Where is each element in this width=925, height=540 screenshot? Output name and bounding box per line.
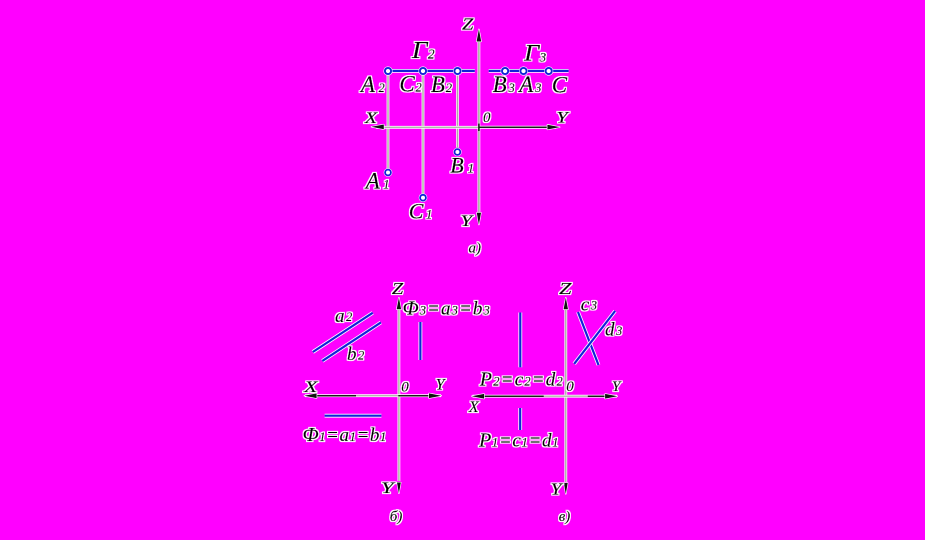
- svg-text:a2: a2: [335, 306, 352, 327]
- svg-text:Γ3: Γ3: [523, 41, 547, 66]
- svg-text:Y: Y: [556, 110, 570, 127]
- wire: connector B2-B1: [456, 75, 459, 148]
- svg-text:B3: B3: [493, 72, 515, 97]
- line d3 (blue): [574, 311, 615, 364]
- line a2 (blue): [313, 313, 373, 352]
- svg-text:c3: c3: [581, 294, 597, 315]
- svg-text:b2: b2: [347, 344, 364, 365]
- svg-text:Y: Y: [436, 377, 447, 394]
- figure b : bottom-left diagram: [303, 279, 491, 525]
- svg-text:d3: d3: [605, 320, 622, 341]
- figure a : top projection diagram: [359, 14, 571, 256]
- line b2 (blue): [322, 322, 381, 361]
- svg-text:0: 0: [401, 379, 409, 395]
- node C2: [418, 66, 427, 75]
- svg-text:Ф3=a3=b3: Ф3=a3=b3: [403, 298, 491, 320]
- svg-text:б): б): [390, 509, 403, 525]
- node C1: [419, 193, 428, 202]
- axis X-Y horizontal: [376, 126, 479, 129]
- horizontal trace F1 segment (blue): [325, 414, 382, 418]
- svg-text:A3: A3: [517, 72, 541, 97]
- node A2: [383, 66, 392, 75]
- axis Z-Y1 vertical: [397, 302, 400, 481]
- svg-text:в): в): [559, 509, 571, 525]
- plane trace G2 (blue): [385, 69, 475, 73]
- svg-text:Y: Y: [381, 480, 396, 497]
- svg-text:0: 0: [483, 110, 491, 126]
- svg-text:C: C: [552, 73, 568, 98]
- frontal trace P2 segment (blue): [518, 313, 522, 368]
- svg-text:а): а): [469, 240, 482, 256]
- node B1: [453, 148, 462, 157]
- node A1: [384, 168, 393, 177]
- svg-text:X: X: [303, 379, 320, 396]
- node B2: [453, 66, 462, 75]
- svg-text:Y: Y: [461, 213, 475, 230]
- svg-text:Z: Z: [559, 279, 572, 298]
- axis X-Y horizontal: [305, 394, 441, 397]
- line c3 (blue): [578, 312, 599, 365]
- svg-text:X: X: [364, 110, 379, 127]
- axis X-Y horizontal: [473, 395, 618, 398]
- figure v : bottom-right diagram: [468, 279, 622, 525]
- horizontal trace P1 segment (blue): [518, 408, 522, 430]
- node C3: [544, 66, 553, 75]
- profile trace F3 segment (blue): [418, 322, 422, 360]
- node B3: [501, 66, 510, 75]
- svg-text:Z: Z: [392, 279, 404, 298]
- svg-text:Y: Y: [551, 479, 564, 498]
- svg-text:Ф1=a1=b1: Ф1=a1=b1: [303, 424, 387, 446]
- svg-text:A2: A2: [359, 72, 385, 97]
- svg-text:P1=c1=d1: P1=c1=d1: [478, 430, 559, 452]
- plane trace G3 (blue): [489, 69, 569, 73]
- svg-text:B1: B1: [450, 153, 474, 178]
- svg-text:X: X: [468, 399, 480, 416]
- svg-text:Y: Y: [612, 379, 622, 395]
- svg-text:Z: Z: [462, 14, 474, 33]
- svg-text:P2=c2=d2: P2=c2=d2: [479, 369, 564, 391]
- axis Z-Y1 vertical: [564, 302, 567, 482]
- svg-text:B2: B2: [431, 72, 452, 97]
- svg-text:C1: C1: [409, 198, 432, 223]
- axis Z-Y1 vertical: [477, 33, 480, 214]
- wire: connector C2-C1: [422, 75, 425, 194]
- node A3: [519, 66, 528, 75]
- svg-text:C2: C2: [399, 71, 421, 96]
- origin tick: [478, 124, 480, 131]
- svg-text:Γ2: Γ2: [411, 38, 435, 64]
- svg-text:0: 0: [566, 379, 574, 395]
- wire: connector A2-A1: [387, 75, 390, 169]
